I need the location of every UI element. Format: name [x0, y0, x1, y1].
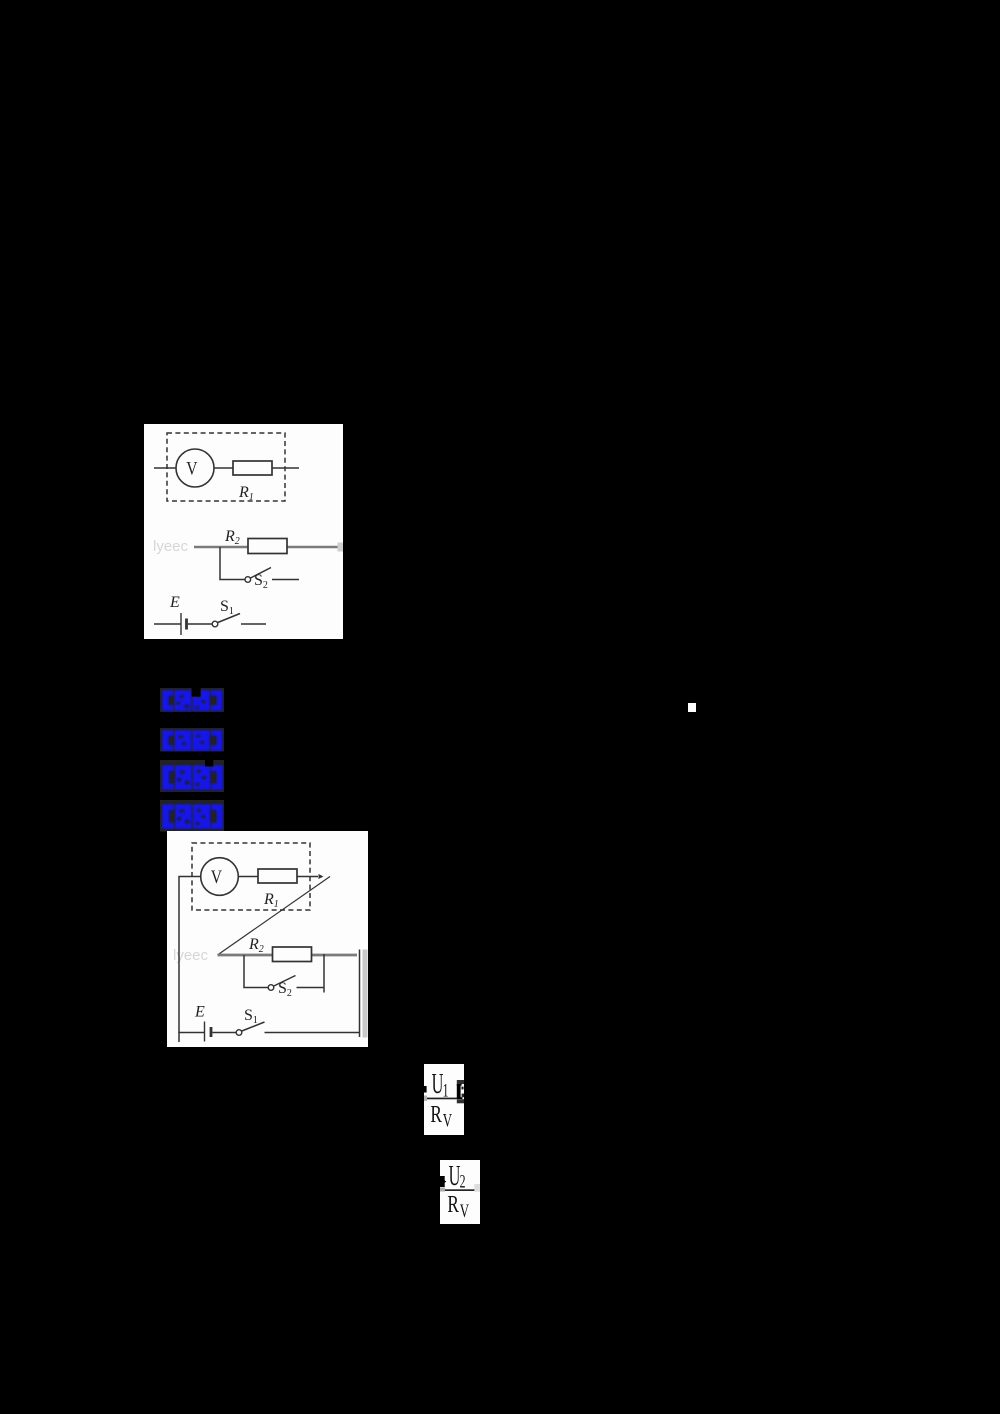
resistor R1 body	[233, 461, 272, 475]
switch S1 lever	[242, 1022, 265, 1031]
svg-text:lyeec: lyeec	[153, 538, 189, 555]
svg-text:V: V	[443, 1110, 453, 1131]
fraction bar	[427, 1098, 457, 1100]
formula box 2: fraction U2/RV	[440, 1160, 480, 1224]
switch S1 contact	[212, 621, 218, 627]
wire R2 main horizontal	[218, 954, 358, 957]
svg-text:U: U	[432, 1069, 444, 1100]
junction dot / arrowhead	[319, 874, 324, 879]
wire S2 to right branch	[297, 987, 325, 989]
diagonal connecting wire	[218, 877, 331, 956]
clipped gray square right	[474, 1184, 480, 1192]
svg-text:U: U	[449, 1161, 461, 1192]
dashed enclosure box	[167, 433, 285, 501]
dashed enclosure box	[192, 843, 310, 910]
battery short plate	[210, 1027, 213, 1037]
light wire end cap	[338, 543, 344, 552]
svg-text:V: V	[460, 1201, 470, 1222]
resistor R2 body	[248, 539, 287, 554]
switch S2 contact	[245, 577, 251, 583]
clipped text fragment left	[424, 1086, 427, 1093]
blue tag line 4 jieda	[160, 800, 224, 832]
blue tag line 1 kaodian	[160, 688, 224, 712]
battery long plate	[204, 1022, 206, 1042]
left rail wire	[179, 877, 201, 1043]
right branch vertical to R2 wire	[323, 954, 325, 993]
battery E short plate	[185, 619, 188, 630]
branch wire down from R2 node	[220, 547, 245, 580]
wire R2 main horizontal	[194, 546, 340, 549]
switch S2 lever	[251, 568, 272, 579]
blue tag line 3 fenxi	[160, 760, 224, 792]
voltmeter V	[201, 858, 239, 896]
branch down-left of R2	[244, 955, 268, 988]
fraction bar	[444, 1189, 475, 1191]
wire voltmeter to R1	[238, 876, 258, 878]
bottom wire left segment	[178, 1032, 204, 1034]
resistor R1 body	[258, 869, 297, 883]
wire battery to S1	[213, 1032, 237, 1034]
svg-text:E: E	[194, 1004, 205, 1021]
circuit image 1 (voltmeter V + R1 in dashed box, R2 with S2, battery E with S1)	[144, 424, 343, 639]
clipped text fragment left	[440, 1176, 446, 1187]
wire right of S1	[241, 623, 266, 625]
wire left of voltmeter	[154, 467, 177, 469]
clipped text fragment right (partial letter)	[457, 1080, 464, 1084]
switch S1 lever	[218, 614, 240, 623]
wire right of R1	[297, 876, 318, 878]
svg-text:V: V	[186, 458, 198, 479]
svg-text:R: R	[430, 1100, 442, 1128]
bottom wire right segment	[265, 1032, 360, 1034]
formula box 1: fraction U1/RV	[424, 1064, 464, 1135]
right rail vertical	[359, 950, 361, 1038]
switch S1 contact	[236, 1030, 242, 1036]
battery E long plate	[180, 613, 182, 635]
switch S2 contact	[268, 985, 274, 991]
wire battery to switch	[188, 623, 212, 625]
svg-text:R: R	[447, 1190, 459, 1218]
svg-text:E: E	[169, 594, 180, 611]
wire left of battery	[154, 623, 181, 625]
svg-text:2: 2	[460, 1172, 466, 1192]
resistor R2 body	[273, 947, 312, 962]
small white bullet square	[688, 703, 696, 712]
wire voltmeter to resistor	[214, 467, 233, 469]
switch S2 lever	[274, 976, 296, 987]
circuit image 2 (same network, connected: V+R1 box, diagonal wire, R2 parallel S2, E and S1)	[167, 831, 368, 1047]
svg-text:V: V	[211, 866, 223, 887]
wire right of R1	[272, 467, 299, 469]
light gray scroll bar strip	[363, 950, 368, 1038]
wire right of S2	[272, 579, 299, 581]
blue tag line 2 zhuanti	[160, 728, 224, 752]
voltmeter V1	[176, 449, 214, 487]
